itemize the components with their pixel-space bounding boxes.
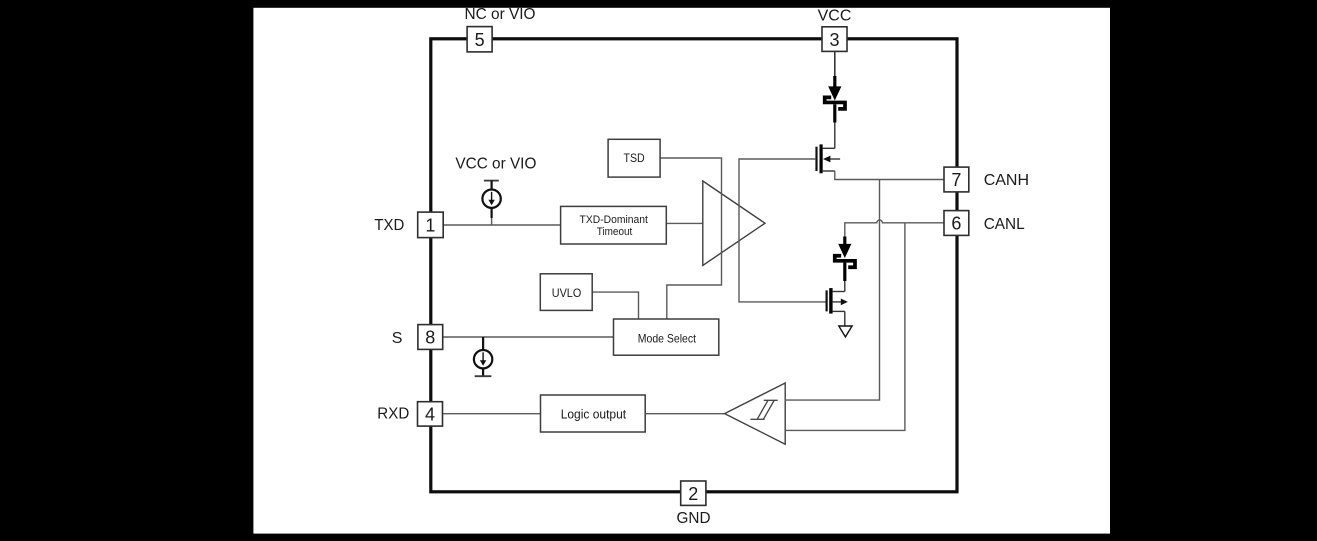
transistor Q1 source stub: [823, 170, 835, 172]
chip boundary rectangle: [431, 39, 957, 492]
transistor Q1 body arrow: [823, 156, 830, 163]
svg-text:Logic output: Logic output: [561, 407, 627, 421]
wire receiver top output to CANH: [785, 180, 879, 401]
svg-text:8: 8: [425, 328, 435, 348]
svg-text:NC or VIO: NC or VIO: [465, 6, 536, 23]
current source I1 stem upper: [491, 181, 493, 190]
wire TSD to Mode Select (enable net): [660, 158, 721, 319]
pin 4 box: [418, 402, 443, 426]
svg-text:7: 7: [951, 170, 961, 190]
wire D1 to Q1: [833, 104, 836, 122]
current source I2 arrow: [482, 352, 484, 360]
block Logic output: [541, 395, 646, 432]
pin 2 box: [681, 481, 706, 505]
wire gate drive net: [739, 159, 826, 302]
current source I1 arrow: [491, 192, 493, 200]
wire TXD pin1 to TXD-Dominant Timeout: [443, 224, 560, 226]
wire receiver bottom output to CANL: [785, 223, 905, 431]
receiver triangle U2: [725, 383, 786, 444]
transistor Q1 drain stub: [823, 147, 835, 149]
block TXD-Dominant Timeout: [561, 206, 667, 244]
diode D2 anode triangle: [838, 244, 851, 258]
svg-text:Mode Select: Mode Select: [638, 331, 697, 345]
svg-text:1: 1: [425, 215, 435, 235]
svg-text:2: 2: [688, 484, 698, 504]
transistor Q2 gate bar: [825, 290, 827, 311]
diode D1 schottky cathode bar: [825, 97, 845, 109]
svg-text:6: 6: [951, 214, 961, 234]
svg-text:VCC or VIO: VCC or VIO: [455, 156, 536, 173]
svg-text:CANL: CANL: [984, 216, 1025, 233]
transistor Q1 channel bar: [819, 144, 822, 173]
svg-text:VCC: VCC: [818, 7, 852, 24]
wire S pin8 to Mode Select: [443, 336, 614, 338]
wire UVLO to Mode Select: [592, 292, 638, 319]
svg-text:3: 3: [829, 30, 839, 50]
transistor Q2 channel bar: [829, 288, 832, 314]
current source I2 ground bar: [475, 375, 492, 377]
svg-text:TSD: TSD: [624, 151, 645, 165]
hysteresis glyph: [750, 418, 764, 420]
wire Q2 source to ground: [844, 311, 846, 326]
pin 8 box: [418, 325, 443, 350]
current source I1 top bar: [484, 180, 499, 182]
current source I1 stem lower: [491, 208, 493, 218]
wire Logic output to receiver apex: [646, 413, 725, 415]
block UVLO: [540, 274, 592, 311]
pin 7 box: [944, 167, 969, 192]
white page panel: [253, 8, 1110, 534]
diode D2 stem: [843, 237, 846, 246]
svg-text:TXD-Dominant: TXD-Dominant: [580, 214, 648, 226]
svg-text:Timeout: Timeout: [597, 226, 633, 238]
wire D2 to Q2: [843, 263, 846, 281]
current source I2 circle: [474, 350, 492, 368]
current source I2 stem upper: [482, 337, 484, 350]
block TSD: [608, 139, 660, 177]
svg-text:GND: GND: [677, 510, 711, 527]
svg-text:4: 4: [425, 404, 435, 424]
block Mode Select: [614, 319, 719, 355]
pin 5 box: [467, 27, 492, 52]
svg-text:UVLO: UVLO: [552, 286, 582, 300]
svg-text:5: 5: [475, 30, 485, 50]
pin 1 box: [418, 212, 444, 238]
current source I2 stem lower: [482, 368, 484, 376]
VCC stem from pin3: [834, 52, 836, 78]
svg-text:RXD: RXD: [377, 406, 409, 423]
pin 3 box: [822, 27, 847, 52]
transistor Q2 drain stub: [833, 291, 845, 293]
transistor Q1 gate bar: [815, 147, 817, 171]
diode D2 schottky cathode bar: [835, 256, 855, 268]
driver triangle U1: [703, 181, 765, 265]
ground symbol: [839, 326, 852, 337]
current source I1 circle: [482, 190, 500, 208]
svg-text:CANH: CANH: [984, 172, 1029, 189]
transistor Q2 body arrow: [833, 301, 842, 303]
wire CANL node with hop over CANH sense line: [845, 220, 944, 238]
pin 6 box: [944, 211, 969, 236]
wire RXD pin4 to Logic output: [443, 413, 540, 415]
svg-text:TXD: TXD: [374, 217, 404, 234]
transistor Q2 source stub: [833, 310, 845, 312]
wire CANH node: [835, 171, 944, 180]
svg-text:S: S: [392, 330, 403, 347]
diode D1 anode triangle: [828, 86, 841, 100]
wire TXD-Dominant Timeout to driver: [666, 222, 703, 224]
